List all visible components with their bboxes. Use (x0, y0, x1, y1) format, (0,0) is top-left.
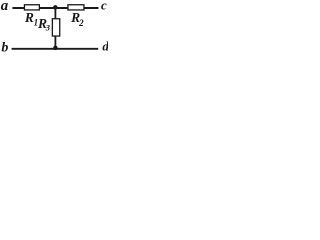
svg-text:c: c (101, 0, 107, 13)
svg-text:b: b (1, 41, 8, 56)
svg-text:2: 2 (78, 18, 84, 28)
svg-text:3: 3 (45, 22, 51, 32)
svg-text:R: R (24, 10, 34, 25)
svg-text:d: d (102, 38, 108, 53)
svg-text:a: a (1, 0, 9, 14)
